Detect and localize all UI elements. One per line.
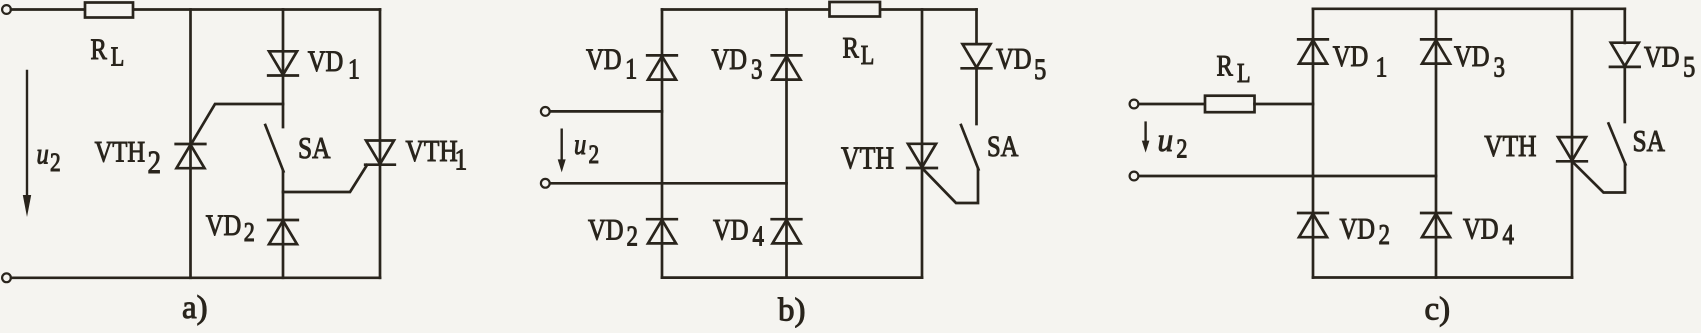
svg-text:3: 3 [751, 53, 762, 85]
svg-text:VD: VD [1463, 212, 1499, 245]
svg-text:R: R [1217, 49, 1234, 82]
svg-text:u: u [1158, 121, 1174, 158]
svg-text:VD: VD [1333, 40, 1369, 73]
svg-text:VD: VD [588, 213, 624, 246]
svg-text:3: 3 [1494, 51, 1505, 83]
svg-text:2: 2 [1176, 135, 1187, 165]
svg-text:2: 2 [50, 149, 61, 177]
svg-text:1: 1 [455, 143, 468, 177]
svg-text:2: 2 [244, 218, 255, 248]
svg-text:1: 1 [1376, 50, 1388, 83]
svg-text:R: R [91, 33, 108, 66]
svg-text:5: 5 [1034, 53, 1046, 86]
svg-text:1: 1 [348, 52, 360, 85]
svg-text:1: 1 [625, 52, 637, 85]
svg-text:a): a) [182, 290, 208, 326]
svg-text:SA: SA [1633, 125, 1666, 159]
svg-text:2: 2 [627, 220, 638, 252]
svg-text:SA: SA [987, 130, 1019, 163]
svg-text:VTH: VTH [406, 135, 458, 169]
svg-text:2: 2 [589, 141, 600, 169]
svg-text:VTH: VTH [95, 135, 146, 168]
svg-text:L: L [861, 41, 875, 71]
svg-text:SA: SA [298, 132, 331, 166]
svg-text:VD: VD [996, 42, 1032, 75]
svg-text:2: 2 [148, 143, 162, 180]
svg-text:4: 4 [753, 220, 765, 252]
svg-text:VTH: VTH [841, 141, 894, 176]
svg-text:VD: VD [586, 43, 622, 76]
svg-text:c): c) [1425, 292, 1451, 328]
svg-text:b): b) [778, 293, 806, 329]
svg-text:L: L [111, 42, 125, 72]
svg-text:5: 5 [1683, 50, 1695, 83]
svg-text:VD: VD [1644, 40, 1680, 73]
svg-text:u: u [574, 128, 586, 161]
svg-text:VD: VD [1454, 40, 1490, 73]
svg-text:R: R [843, 31, 860, 64]
svg-text:L: L [1237, 59, 1251, 89]
svg-text:VD: VD [206, 209, 242, 242]
svg-text:VTH: VTH [1484, 130, 1536, 164]
svg-text:2: 2 [1379, 219, 1390, 251]
svg-text:u: u [37, 137, 49, 170]
svg-text:VD: VD [713, 213, 749, 246]
svg-text:VD: VD [308, 45, 344, 78]
svg-text:4: 4 [1503, 219, 1515, 251]
svg-text:VD: VD [1340, 212, 1376, 245]
svg-text:VD: VD [712, 43, 748, 76]
